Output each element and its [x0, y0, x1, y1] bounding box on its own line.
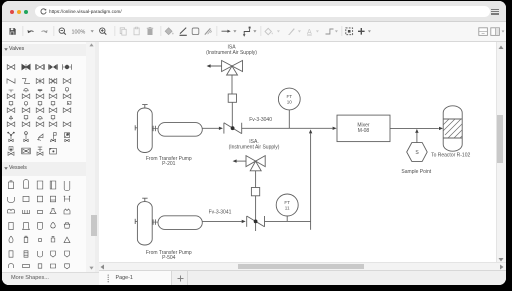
- add shape button: [358, 28, 371, 35]
- vessel symbol: double roll: [3, 204, 19, 220]
- valve symbol with T actuator: [3, 87, 19, 103]
- valve symbol with circle actuator: [59, 87, 75, 103]
- wire: upper air line upper segment: [231, 75, 233, 94]
- wire: upper vent line with left arrow: [207, 64, 222, 67]
- valve symbol: pole damper: [18, 129, 34, 145]
- sidebar scrollbar up arrow: [89, 43, 94, 47]
- vessel symbol: cut pocket: [59, 258, 75, 274]
- vertical scrollbar thumb: [497, 115, 503, 163]
- svg-text:10: 10: [287, 100, 293, 105]
- wire: P-201 outlet line with arrow: [202, 127, 223, 130]
- vessel symbol: skirted tank: [18, 218, 34, 234]
- vessel symbol: open tank: [59, 177, 75, 193]
- sidebar scrollbar thumb: [91, 215, 97, 236]
- panel toggle 2: [491, 28, 500, 36]
- zoom in icon: [100, 28, 107, 35]
- wire: mixer outlet pipe to reactor: [390, 127, 443, 130]
- vessel symbol: tub: [3, 191, 19, 207]
- shape palette sidebar: [2, 42, 99, 285]
- valve symbol with square actuator: [45, 87, 61, 103]
- vessel symbol: cylinder: [3, 246, 19, 262]
- traffic light red: [10, 10, 14, 14]
- toolbar: [2, 22, 506, 42]
- vessel: transfer pump P-504 vertical tank: [137, 202, 152, 245]
- brush icon: [205, 28, 212, 34]
- line/pen icon: [180, 28, 187, 36]
- valve: lower 3-way instrument air valve: [246, 156, 265, 171]
- canvas area white: [99, 42, 506, 270]
- vessel: transfer pump P-201 vertical tank: [137, 108, 152, 153]
- component: lower air set regulator (square): [251, 188, 259, 196]
- redo icon: [42, 30, 48, 33]
- vessel symbol: flask: [45, 232, 61, 248]
- vessel symbol: bell: [45, 204, 61, 220]
- Valves section header: [2, 44, 95, 56]
- More Shapes bar: [2, 272, 99, 285]
- vessel: transfer pump P-201 horizontal cylinder: [158, 123, 202, 137]
- wire: upper air line lower segment: [231, 102, 233, 128]
- node: P-201 label: [146, 156, 192, 167]
- valve symbol with needle actuator: [3, 115, 19, 131]
- hamburger menu: [491, 9, 499, 10]
- valve symbol: ball valve: [59, 59, 75, 75]
- vessel symbol: pot: [59, 218, 75, 234]
- vessel: reactor R-102 column: [436, 106, 476, 151]
- svg-text:P-504: P-504: [162, 255, 176, 261]
- component: mixer M-08: [337, 115, 390, 142]
- svg-text:(Instrument Air Supply): (Instrument Air Supply): [229, 145, 280, 151]
- vessel symbol: small box: [32, 232, 48, 248]
- vessel symbol: dome: [3, 258, 19, 274]
- page tab bar: [99, 270, 506, 285]
- svg-text:Fv-3-3041: Fv-3-3041: [209, 210, 232, 216]
- component: upper air set regulator (square): [228, 94, 236, 102]
- vessel symbol: round box: [45, 258, 61, 274]
- valve symbol: closed gate valve: [18, 59, 34, 75]
- horizontal scrollbar thumb: [238, 264, 364, 269]
- vessel symbol: lined bin: [45, 191, 61, 207]
- vessel symbol: small tank: [32, 258, 48, 274]
- vessel symbol: drum: [3, 177, 19, 193]
- svg-text:Fv-3-3040: Fv-3-3040: [249, 117, 272, 123]
- valve symbol with circle actuator: [18, 101, 34, 117]
- valve symbol: slanted relief: [32, 129, 48, 145]
- node: lower instrument air supply label: [229, 139, 280, 150]
- svg-text:11: 11: [285, 206, 290, 211]
- instrument FT-10 flow transmitter: [278, 88, 300, 128]
- valve: upper 3-way instrument air valve: [222, 61, 243, 76]
- valve FV-3-3040 (control valve): [224, 123, 242, 134]
- vessel symbol: square tank: [32, 191, 48, 207]
- svg-text:Sample Point: Sample Point: [401, 169, 431, 175]
- panel toggle 1: [479, 28, 488, 36]
- valve symbol: check valve: [32, 73, 48, 89]
- valve symbol with bar actuator: [32, 87, 48, 103]
- wire: lower air line upper segment: [255, 171, 257, 188]
- valve symbol with slash actuator: [59, 101, 75, 117]
- vessel symbol: H frame: [59, 191, 75, 207]
- valve symbol: four-way valve: [45, 73, 61, 89]
- svg-text:FT: FT: [286, 94, 292, 99]
- vessel symbol: pocket2: [59, 246, 75, 262]
- copy icon (disabled): [120, 28, 126, 35]
- vessel symbol: onion: [45, 218, 61, 234]
- pin: P-201 flange coupling: [152, 126, 158, 131]
- valve symbol with square actuator: [32, 101, 48, 117]
- vertical scrollbar: [496, 42, 506, 262]
- url text: [49, 9, 122, 14]
- svg-text:To Reactor R-102: To Reactor R-102: [431, 153, 470, 159]
- vessel symbol: cone: [59, 232, 75, 248]
- vessel symbol: u-tub: [32, 246, 48, 262]
- font style button: [307, 29, 319, 36]
- vessel symbol: cup: [32, 218, 48, 234]
- pin: P-504 tank top nozzle: [142, 198, 147, 201]
- valve symbol: T valve: [32, 143, 48, 159]
- sidebar scrollbar track: [86, 42, 95, 272]
- component: sample point hexagon S: [407, 143, 428, 162]
- valve symbol with plain small: [59, 115, 75, 131]
- line style button: [288, 28, 301, 35]
- tab label: [116, 275, 133, 281]
- fill color icon: [165, 28, 173, 35]
- save icon: [10, 28, 16, 35]
- active page tab: [99, 271, 172, 285]
- sidebar splitter gutter: [95, 42, 99, 272]
- valve symbol: breather: [3, 73, 19, 89]
- wire: sample point branch with up arrow: [415, 129, 418, 143]
- vessel symbol: drop: [3, 232, 19, 248]
- vessel symbol: pill: [32, 204, 48, 220]
- vessel symbol: wide box: [18, 258, 34, 274]
- valve symbol: gate valve: [3, 59, 19, 75]
- node: upper instrument air supply label: [206, 45, 257, 56]
- vessel: transfer pump P-504 horizontal cylinder: [158, 216, 202, 230]
- wire: P-504 outlet line with arrow: [202, 220, 245, 223]
- vessel symbol: tank: [32, 177, 48, 193]
- vessel symbol: rounded tank: [18, 191, 34, 207]
- traffic light green: [24, 10, 28, 14]
- wire: lower vent line with left arrow: [233, 159, 246, 162]
- wire: lower process pipe to riser: [265, 220, 311, 222]
- shape icon: [192, 28, 199, 35]
- horizontal scrollbar: [99, 262, 506, 270]
- wire: riser from lower line with up arrow: [309, 129, 312, 229]
- vessel symbol: capped cylinder: [18, 232, 34, 248]
- undo icon: [28, 30, 34, 33]
- valve symbol with square actuator: [18, 115, 34, 131]
- valve symbol: boxed dot: [45, 143, 61, 159]
- svg-text:(Instrument Air Supply): (Instrument Air Supply): [206, 50, 257, 56]
- wire: lower air line lower segment: [255, 196, 257, 231]
- svg-text:100%: 100%: [72, 29, 86, 35]
- valve symbol: globe valve: [59, 73, 75, 89]
- svg-text:FT: FT: [284, 200, 290, 205]
- valve symbol: three-way tree: [3, 129, 19, 145]
- vessel symbol: striped barrel: [18, 246, 34, 262]
- pin: P-504 tank side nozzle: [135, 219, 137, 224]
- valve symbol with dome actuator: [32, 115, 48, 131]
- fit page icon: [346, 28, 353, 35]
- valve symbol with dome actuator: [18, 87, 34, 103]
- valve symbol with square actuator: [3, 101, 19, 117]
- valve symbol: box ball: [59, 129, 75, 145]
- connector tool: [243, 27, 257, 37]
- valve symbol: zigzag damper: [18, 73, 34, 89]
- tab grip: [107, 274, 110, 283]
- valve symbol: dotted valve: [3, 143, 19, 159]
- fill style button: [265, 28, 280, 34]
- traffic light yellow: [17, 10, 21, 14]
- valve symbol: closed gate valve flanged: [45, 59, 61, 75]
- refresh icon: [40, 8, 47, 15]
- pin: P-201 tank side nozzle: [135, 125, 137, 130]
- junction: FV-3-3041 stem dot: [254, 220, 258, 224]
- browser chrome bar: [2, 1, 506, 22]
- connector style button: [326, 29, 338, 34]
- pin: P-201 tank top nozzle: [142, 105, 147, 108]
- pin: P-504 flange coupling: [152, 219, 158, 224]
- svg-text:P-201: P-201: [162, 161, 176, 167]
- valve symbol: boxed valve: [18, 143, 34, 159]
- valve symbol: gate valve flanged: [32, 59, 48, 75]
- svg-text:M-08: M-08: [358, 128, 370, 134]
- url pill: [35, 6, 490, 18]
- vessel symbol: pocket: [45, 246, 61, 262]
- zoom out icon: [59, 28, 66, 35]
- wire: main process pipe to mixer: [242, 127, 337, 130]
- arrow tool: [222, 30, 237, 33]
- add page button: [172, 271, 188, 285]
- valve symbol: flag valve: [45, 129, 61, 145]
- vessel symbol: drum 2: [18, 177, 34, 193]
- vessel symbol: peaked bin: [59, 204, 75, 220]
- valve symbol with square actuator: [45, 101, 61, 117]
- vessel symbol: tank lined: [45, 177, 61, 193]
- valve symbol with square actuator: [45, 115, 61, 131]
- paste icon (disabled): [134, 27, 139, 35]
- vessel symbol: comb: [18, 204, 34, 220]
- instrument FT-11 flow transmitter: [276, 194, 298, 221]
- sidebar scrollbar down arrow: [89, 266, 94, 270]
- Vessels section header: [2, 162, 95, 176]
- junction: FV-3-3040 stem dot: [231, 126, 235, 130]
- node: P-504 label: [146, 250, 192, 261]
- trash icon: [147, 27, 153, 35]
- valve FV-3-3041 (control valve): [247, 216, 265, 227]
- vessel symbol: column: [3, 218, 19, 234]
